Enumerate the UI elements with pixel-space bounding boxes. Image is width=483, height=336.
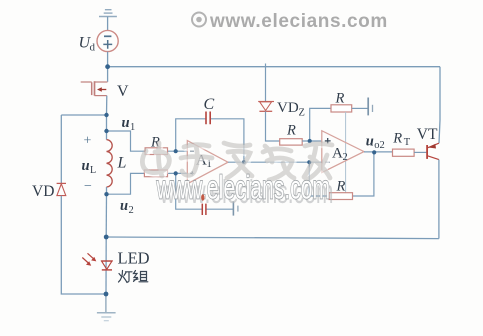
wire Ud to top bus — [107, 52, 109, 67]
svg-text:+: + — [84, 134, 92, 149]
node: source / VD branch junction — [104, 113, 108, 117]
wire drain — [107, 67, 109, 82]
wire left branch upper vertical — [60, 115, 62, 183]
svg-text:2: 2 — [343, 152, 348, 163]
ground (right of R4, sideways) — [367, 98, 369, 116]
wire minus feedback down through R5 — [309, 153, 374, 197]
wire R4 to ground — [352, 107, 368, 109]
plus sign inside Ud — [103, 40, 112, 49]
node: A1 inverting input — [174, 149, 178, 153]
svg-text:R: R — [336, 179, 346, 195]
wire VT collector down right side — [438, 160, 440, 239]
resistor R2 — [144, 170, 167, 177]
resistor R3 — [280, 139, 303, 145]
svg-text:VD: VD — [32, 183, 54, 200]
inductor L coil — [107, 140, 113, 187]
svg-text:LED: LED — [118, 248, 150, 267]
wire u2 route to resistor R2 — [107, 173, 145, 194]
diode VD — [57, 183, 66, 195]
svg-text:1: 1 — [130, 122, 135, 133]
wire R1 to A1 — [168, 150, 188, 152]
svg-text:www.elecians.com: www.elecians.com — [209, 11, 388, 32]
node u2 — [104, 192, 108, 196]
plus mark A1 — [190, 171, 194, 175]
transistor VT — [427, 143, 439, 159]
wire right vertical (top) — [439, 67, 440, 144]
faint vertical crease line — [345, 112, 347, 199]
node: A2 non-inverting input — [308, 139, 312, 143]
wire u1 route to resistor R1 — [107, 131, 146, 151]
capacitor bottom — [202, 204, 206, 215]
svg-text:VT: VT — [417, 126, 438, 143]
svg-text:d: d — [90, 42, 96, 54]
wire bottom bus — [106, 237, 439, 239]
resistor R4 — [331, 105, 352, 112]
plus mark A2 — [325, 138, 331, 144]
svg-text:C: C — [204, 96, 215, 113]
transistor V (MOSFET) — [81, 81, 108, 96]
node: Ud / drain junction — [105, 64, 110, 69]
wire R2 to A1 — [168, 172, 188, 174]
node: A1 output / C feedback junction — [242, 160, 246, 164]
ground (top, above Ud) — [99, 10, 117, 17]
svg-text:L: L — [117, 155, 127, 172]
wire u2 down to LED node — [105, 194, 107, 237]
wire bottom C branch — [176, 173, 234, 209]
svg-text:R: R — [286, 123, 296, 139]
wire plus node up to R4 — [310, 108, 331, 141]
node: A1 non-inverting input — [174, 171, 178, 175]
zener diode VDZ — [258, 102, 274, 112]
wire main vertical u1 to coil — [106, 115, 108, 140]
wire left branch horizontal — [61, 114, 106, 116]
wire left branch lower vertical — [61, 196, 106, 294]
minus mark A1 — [190, 150, 194, 152]
watermark top www.elecians.com — [192, 11, 388, 32]
op-amp A1 — [187, 141, 228, 184]
wire A2 output to RT — [364, 151, 393, 153]
op-amp A2 — [322, 131, 364, 173]
resistor R1 — [145, 148, 167, 155]
svg-text:Z: Z — [299, 108, 305, 119]
resistor RT — [393, 149, 415, 156]
wire bottom stem to ground — [105, 294, 107, 313]
svg-text:2: 2 — [129, 205, 134, 216]
minus mark A2 — [325, 161, 330, 163]
wire C feedback loop — [176, 119, 244, 162]
wire LED node down — [105, 237, 107, 294]
svg-text:R: R — [335, 91, 345, 107]
LED lamp symbol — [82, 253, 113, 270]
ground (bottom) — [97, 313, 116, 321]
node uo2 — [372, 150, 376, 154]
svg-text:u: u — [122, 115, 130, 131]
wire ground stem to source — [107, 17, 109, 31]
resistor R5 — [329, 193, 352, 200]
svg-text:u: u — [82, 158, 90, 174]
node: A2 inverting input — [307, 160, 311, 164]
wire A1 output — [228, 161, 322, 163]
capacitor C — [206, 112, 210, 125]
wire zener to R3 — [266, 111, 280, 141]
svg-text:u: u — [120, 198, 128, 214]
wire coil bottom to u2 — [106, 187, 108, 194]
wire RT to VT base — [414, 151, 426, 153]
svg-text:V: V — [117, 83, 129, 100]
svg-text:www.elecians.com: www.elecians.com — [156, 169, 330, 206]
red dot of watermark logo — [201, 194, 204, 200]
node u1 — [104, 129, 108, 133]
svg-text:VD: VD — [277, 100, 299, 116]
wire zener branch from bus — [265, 64, 267, 102]
svg-text:T: T — [404, 137, 411, 148]
label 灯组 (hand strokes) — [119, 271, 148, 283]
svg-text:L: L — [90, 165, 96, 176]
svg-text:u: u — [366, 134, 374, 150]
svg-text:−: − — [84, 179, 92, 194]
ground (bottom C, sideways) — [232, 202, 234, 216]
node: LED bottom junction — [104, 292, 109, 297]
wire top bus — [108, 66, 440, 68]
svg-text:R: R — [392, 130, 402, 146]
watermark big www.elecians.com — [156, 169, 334, 211]
node: LED top junction — [104, 235, 109, 240]
wire source lead down — [106, 96, 108, 115]
minus sign inside Ud — [104, 35, 111, 37]
source Ud circle — [97, 30, 118, 51]
svg-text:o2: o2 — [374, 140, 385, 151]
watermark calligraphy 电子发烧友 — [142, 143, 333, 182]
wire R3 to A2 plus input — [302, 140, 322, 142]
